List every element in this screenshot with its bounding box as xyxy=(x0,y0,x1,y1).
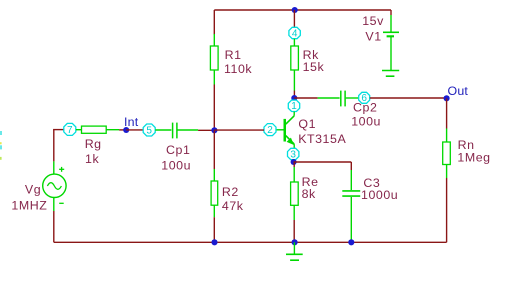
wire base junction to node 2 xyxy=(214,129,264,131)
svg-text:110k: 110k xyxy=(224,62,252,76)
node 7 xyxy=(64,123,76,135)
capacitor C3 xyxy=(342,170,360,242)
node 6 xyxy=(359,92,370,104)
wire R2 top from base junction xyxy=(213,130,215,169)
svg-text:6: 6 xyxy=(361,93,367,104)
wire Int to node 5 xyxy=(126,129,143,131)
wire Rk bottom lead xyxy=(293,91,295,99)
wire R1 top lead drop xyxy=(213,10,215,35)
label R1 value 110k xyxy=(224,48,252,76)
svg-text:Cp1: Cp1 xyxy=(166,143,190,157)
svg-text:KT315A: KT315A xyxy=(298,132,346,146)
svg-text:V1: V1 xyxy=(365,30,381,44)
junction dot rail R2 xyxy=(211,239,217,245)
svg-text:Int: Int xyxy=(124,115,139,129)
ground at emitter rail xyxy=(286,242,303,260)
svg-text:R2: R2 xyxy=(222,185,239,199)
svg-text:R1: R1 xyxy=(225,48,242,62)
node 4 xyxy=(289,27,300,39)
svg-text:1Meg: 1Meg xyxy=(457,150,490,164)
label Q1 value KT315A xyxy=(298,117,346,146)
node 2 xyxy=(264,124,276,136)
label Rg value 1k xyxy=(85,137,102,166)
wire Cp1 to base junction xyxy=(198,129,214,131)
label Cp2 value 100u xyxy=(351,101,381,129)
svg-text:4: 4 xyxy=(292,28,298,39)
svg-text:Vg: Vg xyxy=(25,183,41,197)
svg-text:47k: 47k xyxy=(222,199,244,213)
wire emitter row to C3 xyxy=(294,161,352,163)
ground at battery xyxy=(382,71,399,77)
wire R1 bottom to node row xyxy=(213,85,215,131)
resistor R2 xyxy=(211,169,218,217)
wire Re bottom to rail xyxy=(293,220,295,242)
label Rn value 1Meg xyxy=(457,138,490,164)
wire top rail from R1 top to battery V1 xyxy=(214,9,391,11)
svg-text:1MHZ: 1MHZ xyxy=(11,199,47,213)
svg-text:Out: Out xyxy=(448,84,469,98)
wire Rg to Int junction xyxy=(119,129,126,131)
svg-text:7: 7 xyxy=(67,125,73,136)
svg-text:Rg: Rg xyxy=(85,137,102,151)
svg-text:1k: 1k xyxy=(85,152,99,166)
wire Rn bottom to rail xyxy=(446,178,448,242)
svg-text:100u: 100u xyxy=(351,114,381,128)
svg-text:5: 5 xyxy=(146,125,152,136)
wire Out down to Rn xyxy=(446,98,448,128)
resistor Re xyxy=(291,167,299,220)
capacitor Cp1 xyxy=(155,123,198,139)
junction dot top rail / Rk xyxy=(292,7,298,13)
junction dot rail C3 xyxy=(348,239,354,245)
junction dot base row xyxy=(211,127,217,133)
resistor Rk xyxy=(291,39,299,91)
wire node 7 row xyxy=(53,129,64,131)
label Re value 8k xyxy=(302,175,319,201)
wire collector row to Cp2 xyxy=(294,97,317,99)
label Vg value 1MHZ xyxy=(11,183,47,213)
junction dot collector row xyxy=(291,95,297,101)
wire R2 bottom to rail xyxy=(213,217,215,242)
svg-text:1: 1 xyxy=(291,101,297,112)
source Vg sine generator xyxy=(43,161,66,211)
svg-text:1000u: 1000u xyxy=(361,188,398,202)
resistor Rg xyxy=(76,126,119,133)
node 1 xyxy=(288,100,299,112)
node 5 xyxy=(143,124,155,136)
label R2 value 47k xyxy=(222,185,244,213)
svg-text:100u: 100u xyxy=(161,158,191,172)
svg-text:2: 2 xyxy=(267,125,273,136)
junction dot rail Re ground xyxy=(292,239,298,245)
label V1 value 15v xyxy=(362,14,384,44)
resistor R1 xyxy=(210,34,218,85)
capacitor Cp2 xyxy=(318,91,359,107)
svg-text:15v: 15v xyxy=(362,14,384,28)
wire emitter junction to Re xyxy=(293,162,295,167)
label Rk value 15k xyxy=(303,48,325,74)
label Cp1 value 100u xyxy=(161,143,191,172)
battery V1 xyxy=(383,15,399,70)
battery V1 lead xyxy=(390,10,392,15)
svg-text:15k: 15k xyxy=(303,60,325,74)
label C3 value 1000u xyxy=(361,176,398,202)
junction dot emitter row xyxy=(291,159,297,165)
node 3 xyxy=(288,148,299,160)
wire left branch corner to Vg xyxy=(53,130,55,162)
transistor Q1 xyxy=(276,112,294,149)
node Int xyxy=(123,115,139,133)
wire bottom rail xyxy=(54,241,447,243)
wire top junction to node 4 xyxy=(293,10,295,28)
resistor Rn xyxy=(443,129,451,179)
svg-text:3: 3 xyxy=(290,149,296,160)
edge artifact marks xyxy=(0,131,2,160)
wire node 6 to Out xyxy=(370,97,447,99)
wire C3 top drop xyxy=(350,162,352,170)
svg-text:Q1: Q1 xyxy=(298,117,316,131)
wire node 3 to emitter junction xyxy=(293,160,295,162)
wire Vg bottom to rail corner xyxy=(53,211,55,242)
svg-text:8k: 8k xyxy=(302,187,316,201)
node Out xyxy=(444,84,469,101)
